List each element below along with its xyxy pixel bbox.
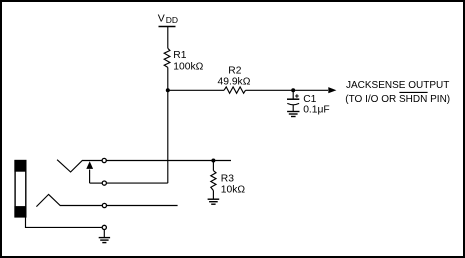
svg-text:R3: R3: [221, 173, 234, 184]
svg-text:C1: C1: [303, 94, 316, 105]
svg-text:R1: R1: [173, 50, 186, 61]
svg-text:DD: DD: [166, 15, 178, 25]
svg-text:100kΩ: 100kΩ: [173, 61, 203, 72]
svg-text:(TO I/O OR SHDN PIN): (TO I/O OR SHDN PIN): [345, 94, 450, 105]
svg-text:10kΩ: 10kΩ: [221, 184, 246, 195]
svg-text:49.9kΩ: 49.9kΩ: [218, 77, 251, 88]
svg-text:V: V: [158, 13, 165, 25]
svg-text:R2: R2: [228, 65, 241, 76]
svg-text:JACKSENSE OUTPUT: JACKSENSE OUTPUT: [346, 80, 449, 91]
svg-text:0.1μF: 0.1μF: [303, 105, 330, 116]
